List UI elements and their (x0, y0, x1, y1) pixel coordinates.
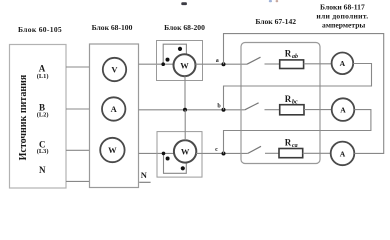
svg-text:W: W (108, 145, 117, 155)
W1 circle (174, 54, 196, 76)
switch S2 blade (245, 103, 259, 110)
W2 junction dot (162, 152, 166, 156)
svg-text:(L1): (L1) (37, 73, 49, 80)
resistor Rca (279, 149, 303, 158)
svg-text:(L3): (L3) (37, 148, 49, 155)
svg-text:R: R (285, 94, 292, 104)
switch S3 blade (248, 146, 261, 153)
svg-text:W: W (181, 147, 190, 157)
svg-text:R: R (285, 49, 292, 59)
W2 polarity dot 1 (166, 157, 170, 161)
wattmeter W (68-100) (100, 138, 124, 162)
svg-text:ab: ab (292, 54, 298, 60)
loop2 A2 to node c (224, 110, 371, 154)
switch S1 blade (247, 57, 261, 64)
wire S3 to R3 (265, 152, 279, 154)
svg-text:N: N (141, 170, 148, 180)
wattmeter W1 outer box (157, 41, 203, 81)
wire A phase (66, 66, 90, 68)
svg-text:A: A (340, 106, 346, 115)
svg-text:Блок 68-100: Блок 68-100 (92, 23, 133, 32)
wire R3 to A3 (303, 152, 331, 154)
W2 polarity dot 2 (181, 166, 185, 170)
svg-text:Блок 68-200: Блок 68-200 (164, 23, 205, 32)
svg-text:Блок 60-105: Блок 60-105 (18, 25, 62, 34)
svg-text:амперметры: амперметры (322, 20, 365, 29)
wire row1 to W1 (139, 63, 174, 65)
W2 circle (174, 140, 196, 162)
svg-text:R: R (285, 138, 292, 148)
wire S2 to R2 (265, 109, 280, 111)
wire S1 to R1 (265, 63, 280, 65)
W2 voltage hook (164, 153, 187, 173)
svg-text:V: V (111, 65, 118, 75)
ammeter A3 (331, 142, 355, 166)
node b (222, 108, 226, 112)
ammeter A (68-100) (102, 97, 125, 120)
W2 vertical to row2 (184, 110, 186, 140)
svg-text:A: A (340, 149, 346, 158)
svg-text:или дополнит.: или дополнит. (316, 11, 368, 20)
wire N stub (139, 181, 150, 183)
block 67-142 rectangle (241, 43, 320, 164)
svg-text:A: A (340, 59, 346, 68)
svg-text:Блоки 68-117: Блоки 68-117 (320, 2, 365, 11)
wire row2 middle (139, 109, 245, 111)
wire W2 to node c (196, 152, 248, 154)
ammeter A2 (332, 98, 355, 121)
svg-text:c: c (215, 147, 218, 153)
svg-text:A: A (111, 104, 118, 114)
svg-text:(L2): (L2) (37, 112, 49, 119)
node c (222, 152, 226, 156)
wire R1 to A1 (304, 63, 332, 65)
artifact mark top (181, 2, 187, 5)
wire C phase (66, 149, 90, 151)
resistor Rbc (280, 105, 304, 115)
voltmeter V (103, 58, 126, 81)
node a (222, 62, 226, 66)
W1 polarity dot 2 (178, 47, 182, 51)
resistor Rab (280, 60, 304, 69)
W1 junction dot (161, 62, 165, 66)
wattmeter W2 outer box (157, 132, 202, 178)
svg-text:ca: ca (292, 143, 298, 149)
ammeter A1 (332, 53, 354, 75)
svg-text:a: a (216, 58, 219, 64)
block 68-100 rectangle (90, 44, 139, 188)
block 60-105 source rectangle (10, 45, 67, 189)
svg-text:N: N (39, 165, 46, 175)
wire N (66, 180, 90, 182)
junction dot row2 (183, 108, 187, 112)
svg-text:Источник питания: Источник питания (18, 74, 29, 160)
loop1 A1 to node b (224, 64, 372, 110)
svg-text:W: W (180, 60, 189, 70)
W1 voltage hook (163, 44, 186, 64)
svg-text:Блок 67-142: Блок 67-142 (255, 17, 296, 26)
loop3 A3 to node a (224, 34, 384, 154)
artifact specks (269, 0, 272, 2)
svg-text:bc: bc (292, 100, 298, 106)
W1 vertical to row2 (184, 76, 186, 110)
W1 polarity dot 1 (166, 58, 170, 62)
wire B phase (66, 108, 90, 110)
wire R2 to A2 (304, 109, 332, 111)
wire W1 to node a (195, 63, 247, 65)
wire row3 to W2 (139, 152, 175, 154)
